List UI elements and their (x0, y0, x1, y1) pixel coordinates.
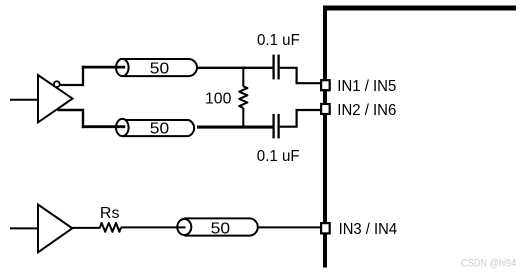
svg-text:0.1 uF: 0.1 uF (257, 32, 300, 49)
svg-text:100: 100 (205, 91, 231, 108)
svg-text:Rs: Rs (100, 205, 120, 222)
svg-text:CSDN @hi94: CSDN @hi94 (461, 257, 516, 269)
svg-text:50: 50 (150, 121, 170, 138)
svg-text:0.1 uF: 0.1 uF (257, 148, 300, 165)
svg-text:50: 50 (211, 220, 231, 237)
svg-text:IN1 / IN5: IN1 / IN5 (337, 78, 396, 95)
svg-text:50: 50 (150, 61, 170, 78)
svg-text:IN3 / IN4: IN3 / IN4 (339, 221, 398, 238)
svg-text:IN2 / IN6: IN2 / IN6 (337, 102, 396, 119)
